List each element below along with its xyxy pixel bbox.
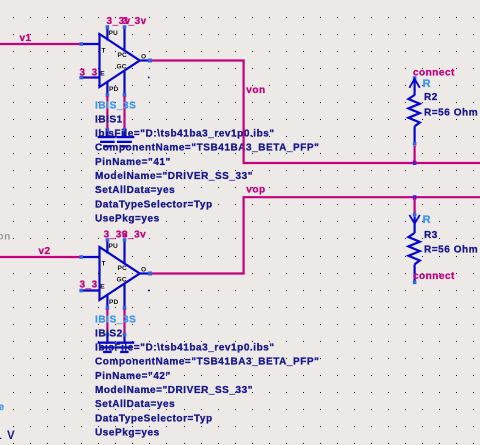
svg-text:R=56 Ohm: R=56 Ohm — [424, 108, 478, 119]
svg-text:R3: R3 — [424, 230, 438, 241]
node v1 label — [20, 33, 32, 44]
svg-text:UsePkg=yes: UsePkg=yes — [95, 214, 160, 225]
svg-text:E: E — [100, 283, 105, 290]
svg-text:IbisFile="D:\tsb41ba3_rev1p0.i: IbisFile="D:\tsb41ba3_rev1p0.ibs" — [95, 342, 275, 353]
svg-text:PinName="42": PinName="42" — [95, 371, 171, 382]
resistor R3 — [408, 197, 419, 284]
svg-text:ModelName="DRIVER_SS_33": ModelName="DRIVER_SS_33" — [95, 171, 253, 182]
svg-text:IBIS1: IBIS1 — [95, 115, 123, 126]
svg-text:3_3v: 3_3v — [123, 16, 147, 27]
U1 labels IBIS_3S IBIS1 parameters — [95, 100, 319, 224]
node junction von R2 — [413, 161, 417, 165]
svg-text:UsePkg=yes: UsePkg=yes — [95, 428, 160, 439]
svg-text:SetAllData=yes: SetAllData=yes — [95, 399, 175, 410]
clipped gray label at left edge — [0, 232, 11, 243]
ground under PD U2 — [98, 336, 116, 353]
node v2 label — [39, 246, 51, 257]
node connect label R2 — [413, 68, 455, 79]
svg-text:T: T — [102, 261, 106, 268]
op-amp U1 IBIS1 buffer symbol — [79, 25, 152, 97]
node vop label — [246, 185, 265, 196]
svg-text:PD: PD — [109, 299, 119, 306]
svg-text:ComponentName="TSB41BA3_BETA_P: ComponentName="TSB41BA3_BETA_PFP" — [95, 357, 319, 368]
svg-text:PU: PU — [109, 30, 119, 37]
ground under GC — [116, 132, 134, 148]
wire GC to ground U2 — [123, 309, 127, 336]
wire PD to ground U2 — [106, 309, 110, 336]
node von label — [246, 85, 265, 96]
svg-text:PU: PU — [109, 243, 119, 250]
svg-text:v1: v1 — [20, 33, 32, 44]
svg-text:connect: connect — [413, 68, 455, 79]
clipped light blue label at left edge — [0, 402, 5, 413]
R2 labels — [423, 78, 479, 118]
R3 labels — [423, 214, 479, 256]
node 3_3v label pin PC U2 — [122, 229, 146, 240]
wire von net — [152, 61, 480, 164]
svg-text:connect: connect — [413, 271, 455, 282]
svg-text:IBIS_3S: IBIS_3S — [95, 100, 136, 111]
svg-text:E: E — [100, 70, 105, 77]
wire v1 — [0, 43, 81, 45]
svg-text:SetAllData=yes: SetAllData=yes — [95, 185, 175, 196]
svg-text:DataTypeSelector=Typ: DataTypeSelector=Typ — [95, 199, 213, 210]
svg-text:e: e — [0, 402, 5, 413]
ground under PD — [98, 132, 116, 148]
svg-text:R2: R2 — [424, 92, 438, 103]
svg-text:v2: v2 — [39, 246, 51, 257]
svg-text:3_3v: 3_3v — [122, 229, 146, 240]
wire PD to ground — [106, 96, 110, 132]
svg-text:on: on — [0, 232, 11, 243]
svg-text:O: O — [141, 266, 146, 273]
svg-text:ComponentName="TSB41BA3_BETA_P: ComponentName="TSB41BA3_BETA_PFP" — [95, 143, 319, 154]
U2 labels IBIS_3S IBIS2 parameters — [95, 314, 319, 438]
svg-text:GC: GC — [117, 277, 127, 284]
node 3_3v label pin PU U2 — [104, 229, 128, 240]
svg-text:PC: PC — [118, 52, 128, 59]
svg-text:3_3: 3_3 — [80, 67, 98, 78]
wire v2 — [0, 256, 81, 258]
wire vop net — [152, 197, 480, 273]
svg-text:IBIS_3S: IBIS_3S — [95, 314, 136, 325]
svg-text:O: O — [141, 53, 146, 60]
node 3_3 label pin E U2 — [80, 280, 98, 291]
svg-text:PinName="41": PinName="41" — [95, 157, 171, 168]
svg-text:IBIS2: IBIS2 — [95, 329, 123, 340]
node 3_3v label pin PC — [123, 16, 147, 27]
node connect label R3 — [413, 271, 455, 282]
svg-text:GC: GC — [117, 64, 127, 71]
svg-text:R=56 Ohm: R=56 Ohm — [424, 244, 478, 255]
node 3_3 label pin E — [80, 67, 98, 78]
svg-text:IbisFile="D:\tsb41ba3_rev1p0.i: IbisFile="D:\tsb41ba3_rev1p0.ibs" — [95, 128, 275, 139]
svg-text:von: von — [246, 85, 265, 96]
svg-text:vop: vop — [246, 185, 265, 196]
svg-text:ModelName="DRIVER_SS_33": ModelName="DRIVER_SS_33" — [95, 385, 253, 396]
svg-text:DataTypeSelector=Typ: DataTypeSelector=Typ — [95, 413, 213, 424]
svg-text:3_3: 3_3 — [80, 280, 98, 291]
svg-text:T: T — [102, 48, 106, 55]
node junction vop R3 — [413, 195, 417, 199]
svg-text:PC: PC — [118, 265, 128, 272]
clipped navy label 1 V at left edge — [0, 430, 16, 442]
wire GC to ground — [123, 96, 127, 132]
node 3_3v label pin PU — [107, 16, 131, 27]
ground under GC U2 — [116, 336, 134, 353]
op-amp U2 IBIS2 buffer symbol — [79, 238, 152, 310]
svg-text:PD: PD — [109, 86, 119, 93]
resistor R2 — [408, 76, 419, 163]
svg-text:R: R — [423, 214, 432, 226]
svg-text:1 V: 1 V — [0, 430, 16, 442]
svg-text:R: R — [423, 78, 432, 90]
